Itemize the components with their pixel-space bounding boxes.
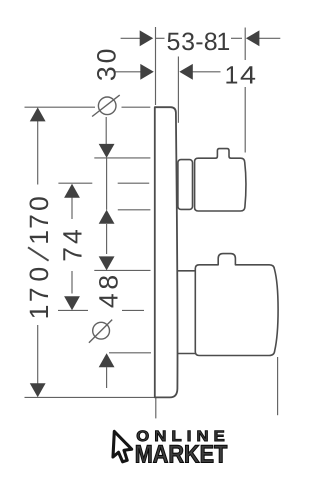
ext dia48 top y270.4 bbox=[94, 269, 150, 271]
svg-text:1: 1 bbox=[216, 28, 230, 56]
svg-text:3: 3 bbox=[181, 28, 195, 56]
ext dia48 bottom y352.4 bbox=[109, 352, 151, 354]
LOGO bbox=[113, 428, 230, 468]
dia48 tail below bbox=[106, 367, 108, 388]
dim 170/170 vertical bbox=[37, 121, 39, 185]
dim line 53-81 right bbox=[231, 37, 242, 39]
svg-text:4: 4 bbox=[57, 229, 87, 244]
arrow 170 top (points up) bbox=[30, 107, 46, 121]
arrow 170 bottom (points down) bbox=[30, 383, 46, 397]
slash of 170/170 bbox=[28, 247, 49, 260]
dim line 14 bbox=[115, 71, 141, 73]
svg-text:1: 1 bbox=[24, 305, 54, 320]
arrow 14 left (points right) bbox=[140, 64, 154, 80]
ext dia30 bottom y209.8 bbox=[118, 209, 151, 211]
arrow dia48 top (points down) bbox=[99, 256, 115, 270]
ext line y397.4 bottom bbox=[25, 396, 155, 398]
dia symbol bottom bbox=[93, 322, 110, 339]
dimension texts (per-glyph placement) bbox=[24, 28, 256, 319]
arrow dia30 bottom (points up) bbox=[99, 210, 115, 224]
dia symbol top bbox=[98, 97, 116, 115]
svg-text:5: 5 bbox=[167, 28, 181, 56]
dia30 leader x106.6 bbox=[105, 117, 107, 145]
lower sleeve lines bbox=[178, 270, 195, 272]
svg-text:0: 0 bbox=[24, 196, 54, 211]
cursor icon bbox=[113, 431, 132, 461]
svg-text:7: 7 bbox=[24, 287, 54, 302]
arrows bbox=[30, 30, 260, 397]
escutcheon plate bbox=[155, 107, 178, 397]
arrow dia30 top (points down) bbox=[99, 144, 115, 158]
lower handle with dome tab bbox=[195, 254, 278, 356]
arrow 14 right (points left) bbox=[179, 64, 193, 80]
arrow 74 bottom (points down) bbox=[64, 296, 80, 310]
svg-text:3: 3 bbox=[92, 66, 122, 81]
BODY bbox=[155, 107, 278, 397]
svg-text:1: 1 bbox=[24, 230, 54, 245]
svg-text:0: 0 bbox=[92, 49, 122, 64]
svg-text:4: 4 bbox=[240, 62, 256, 90]
arrow 53-81 right (points left) bbox=[246, 30, 260, 46]
upper sleeve bbox=[178, 160, 193, 210]
stub below plate bbox=[155, 398, 157, 418]
ext line y107.2 top bbox=[25, 106, 96, 108]
arrow dia48 bottom (points up) bbox=[99, 353, 115, 367]
ext 74 top y183.2 bbox=[58, 182, 92, 184]
ext line plate face x178.4 bbox=[177, 57, 179, 123]
dim 74 vertical bbox=[71, 198, 73, 220]
arrow 74 top (points up) bbox=[64, 184, 80, 198]
ext 74 bottom y310.4 bbox=[58, 309, 88, 311]
svg-text:8: 8 bbox=[93, 275, 123, 290]
stub below lower handle bbox=[277, 357, 279, 415]
text 30 rotated bbox=[24, 49, 123, 320]
svg-text:4: 4 bbox=[93, 293, 123, 308]
ext line front x245.2 bbox=[244, 28, 246, 61]
arrow 53-81 left (points right) bbox=[140, 30, 154, 46]
ext line wall x155.5 bbox=[155, 27, 157, 105]
svg-text:0: 0 bbox=[24, 267, 54, 282]
svg-text:7: 7 bbox=[24, 214, 54, 229]
upper handle with tab bbox=[195, 149, 246, 211]
svg-text:7: 7 bbox=[57, 247, 87, 262]
dim line 53-81 left bbox=[121, 37, 141, 39]
ext dia30 top y157.9 bbox=[94, 157, 150, 159]
svg-text:MARKET: MARKET bbox=[135, 441, 228, 469]
svg-text:-: - bbox=[195, 28, 203, 56]
svg-text:1: 1 bbox=[225, 62, 239, 90]
